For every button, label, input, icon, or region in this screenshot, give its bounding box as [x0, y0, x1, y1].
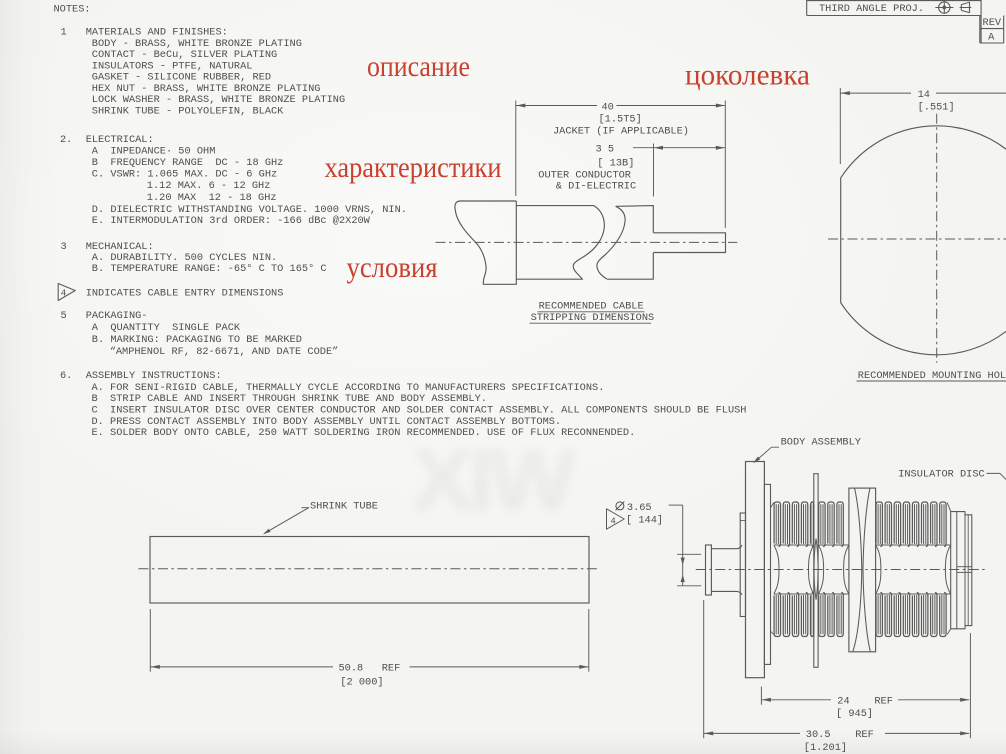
svg-text:E. SOLDER BODY ONTO CABLE, 250: E. SOLDER BODY ONTO CABLE, 250 WATT SOLD…: [92, 427, 636, 439]
svg-text:1: 1: [61, 27, 67, 39]
svg-text:E. INTERMODULATION 3rd ORDER:: E. INTERMODULATION 3rd ORDER: -166 dBc @…: [92, 215, 371, 227]
svg-text:ASSEMBLY INSTRUCTIONS:: ASSEMBLY INSTRUCTIONS:: [86, 370, 222, 382]
svg-text:C. VSWR: 1.065 MAX. DC - 6 GHz: C. VSWR: 1.065 MAX. DC - 6 GHz: [92, 169, 277, 181]
svg-text:характеристики: характеристики: [325, 152, 502, 184]
svg-text:C INSERT INSULATOR DISC OVER: C INSERT INSULATOR DISC OVER CENTER COND…: [92, 405, 747, 417]
svg-text:A QUANTITY SINGLE PACK: A QUANTITY SINGLE PACK: [92, 322, 241, 334]
svg-text:4: 4: [610, 516, 615, 526]
svg-text:BODY ASSEMBLY: BODY ASSEMBLY: [781, 436, 861, 448]
svg-text:B. MARKING: PACKAGING TO BE MA: B. MARKING: PACKAGING TO BE MARKED: [92, 334, 302, 346]
svg-text:14: 14: [918, 89, 930, 101]
svg-text:цоколевка: цоколевка: [685, 59, 810, 91]
svg-text:GASKET - SILICONE RUBBER, RED: GASKET - SILICONE RUBBER, RED: [92, 72, 271, 84]
svg-text:6.: 6.: [60, 370, 72, 382]
svg-text:5: 5: [61, 310, 67, 322]
svg-text:2.: 2.: [60, 134, 72, 146]
svg-text:“AMPHENOL RF, 82-6671, AND DAT: “AMPHENOL RF, 82-6671, AND DATE CODE”: [110, 346, 339, 358]
svg-text:SHRINK TUBE: SHRINK TUBE: [310, 501, 378, 513]
svg-text:1.20 MAX 12 - 18 GHz: 1.20 MAX 12 - 18 GHz: [147, 192, 277, 204]
svg-text:B. TEMPERATURE RANGE: -65° C T: B. TEMPERATURE RANGE: -65° C TO 165° C: [92, 263, 327, 275]
svg-text:PACKAGING-: PACKAGING-: [86, 310, 148, 322]
svg-text:4: 4: [61, 287, 67, 298]
svg-text:условия: условия: [347, 252, 438, 284]
svg-text:D. DIELECTRIC WITHSTANDING VOL: D. DIELECTRIC WITHSTANDING VOLTAGE. 1000…: [92, 204, 407, 216]
svg-text:A: A: [988, 32, 995, 44]
svg-text:[1.201]: [1.201]: [804, 742, 847, 754]
svg-text:50.8 REF: 50.8 REF: [339, 663, 401, 675]
svg-text:24 REF: 24 REF: [837, 696, 893, 708]
svg-text:LOCK WASHER - BRASS, WHITE BRO: LOCK WASHER - BRASS, WHITE BRONZE PLATIN…: [92, 94, 345, 106]
svg-text:A. FOR SENI-RIGID CABLE, THERM: A. FOR SENI-RIGID CABLE, THERMALLY CYCLE…: [92, 382, 605, 394]
svg-text:30.5 REF: 30.5 REF: [806, 729, 874, 741]
svg-text:B FREQUENCY RANGE DC - 18 GH: B FREQUENCY RANGE DC - 18 GHz: [92, 157, 284, 169]
svg-text:B STRIP CABLE AND INSERT THRO: B STRIP CABLE AND INSERT THROUGH SHRINK …: [92, 393, 487, 405]
svg-text:RECOMMENDED CABLE: RECOMMENDED CABLE: [539, 301, 644, 313]
svg-text:3: 3: [61, 241, 67, 253]
svg-text:BODY - BRASS, WHITE BRONZE PLA: BODY - BRASS, WHITE BRONZE PLATING: [92, 38, 302, 50]
svg-text:OUTER CONDUCTOR: OUTER CONDUCTOR: [538, 169, 631, 181]
svg-text:A INPEDANCE· 50 OHM: A INPEDANCE· 50 OHM: [92, 145, 216, 157]
svg-text:3 5: 3 5: [596, 144, 615, 156]
svg-text:[ 13B]: [ 13B]: [597, 157, 634, 169]
svg-text:1.12 MAX. 6 - 12 GHz: 1.12 MAX. 6 - 12 GHz: [147, 180, 271, 192]
svg-text:[1.5T5]: [1.5T5]: [599, 113, 642, 125]
svg-text:JACKET (IF APPLICABLE): JACKET (IF APPLICABLE): [553, 125, 689, 137]
svg-text:3.65: 3.65: [627, 502, 652, 514]
svg-text:INSULATORS - PTFE, NATURAL: INSULATORS - PTFE, NATURAL: [92, 60, 253, 72]
svg-text:[ 144]: [ 144]: [626, 514, 663, 526]
svg-text:NOTES:: NOTES:: [54, 3, 91, 15]
svg-text:RECOMMENDED MOUNTING HOLE: RECOMMENDED MOUNTING HOLE: [858, 370, 1006, 382]
svg-text:SHRINK TUBE - POLYOLEFIN, BLAC: SHRINK TUBE - POLYOLEFIN, BLACK: [92, 106, 284, 118]
svg-text:[2 000]: [2 000]: [340, 676, 383, 688]
svg-text:THIRD ANGLE PROJ.: THIRD ANGLE PROJ.: [819, 3, 924, 15]
svg-text:CONTACT - BeCu, SILVER PLATING: CONTACT - BeCu, SILVER PLATING: [92, 49, 277, 61]
svg-text:D. PRESS CONTACT ASSEMBLY INTO: D. PRESS CONTACT ASSEMBLY INTO BODY ASSE…: [92, 416, 562, 428]
svg-text:& DI-ELECTRIC: & DI-ELECTRIC: [556, 181, 636, 193]
svg-text:HEX NUT - BRASS, WHITE BRONZE: HEX NUT - BRASS, WHITE BRONZE PLATING: [92, 83, 321, 95]
svg-text:[.551]: [.551]: [918, 102, 955, 114]
svg-text:[ 945]: [ 945]: [836, 708, 873, 720]
svg-text:ELECTRICAL:: ELECTRICAL:: [86, 134, 154, 146]
svg-text:описание: описание: [367, 51, 470, 83]
svg-text:INDICATES CABLE ENTRY DIMENSIO: INDICATES CABLE ENTRY DIMENSIONS: [86, 288, 284, 300]
svg-text:STRIPPING DIMENSIONS: STRIPPING DIMENSIONS: [531, 312, 655, 324]
svg-text:REV: REV: [983, 17, 1002, 29]
svg-text:40: 40: [602, 101, 614, 113]
svg-text:INSULATOR DISC: INSULATOR DISC: [898, 468, 985, 480]
svg-text:MATERIALS AND FINISHES:: MATERIALS AND FINISHES:: [86, 27, 228, 39]
